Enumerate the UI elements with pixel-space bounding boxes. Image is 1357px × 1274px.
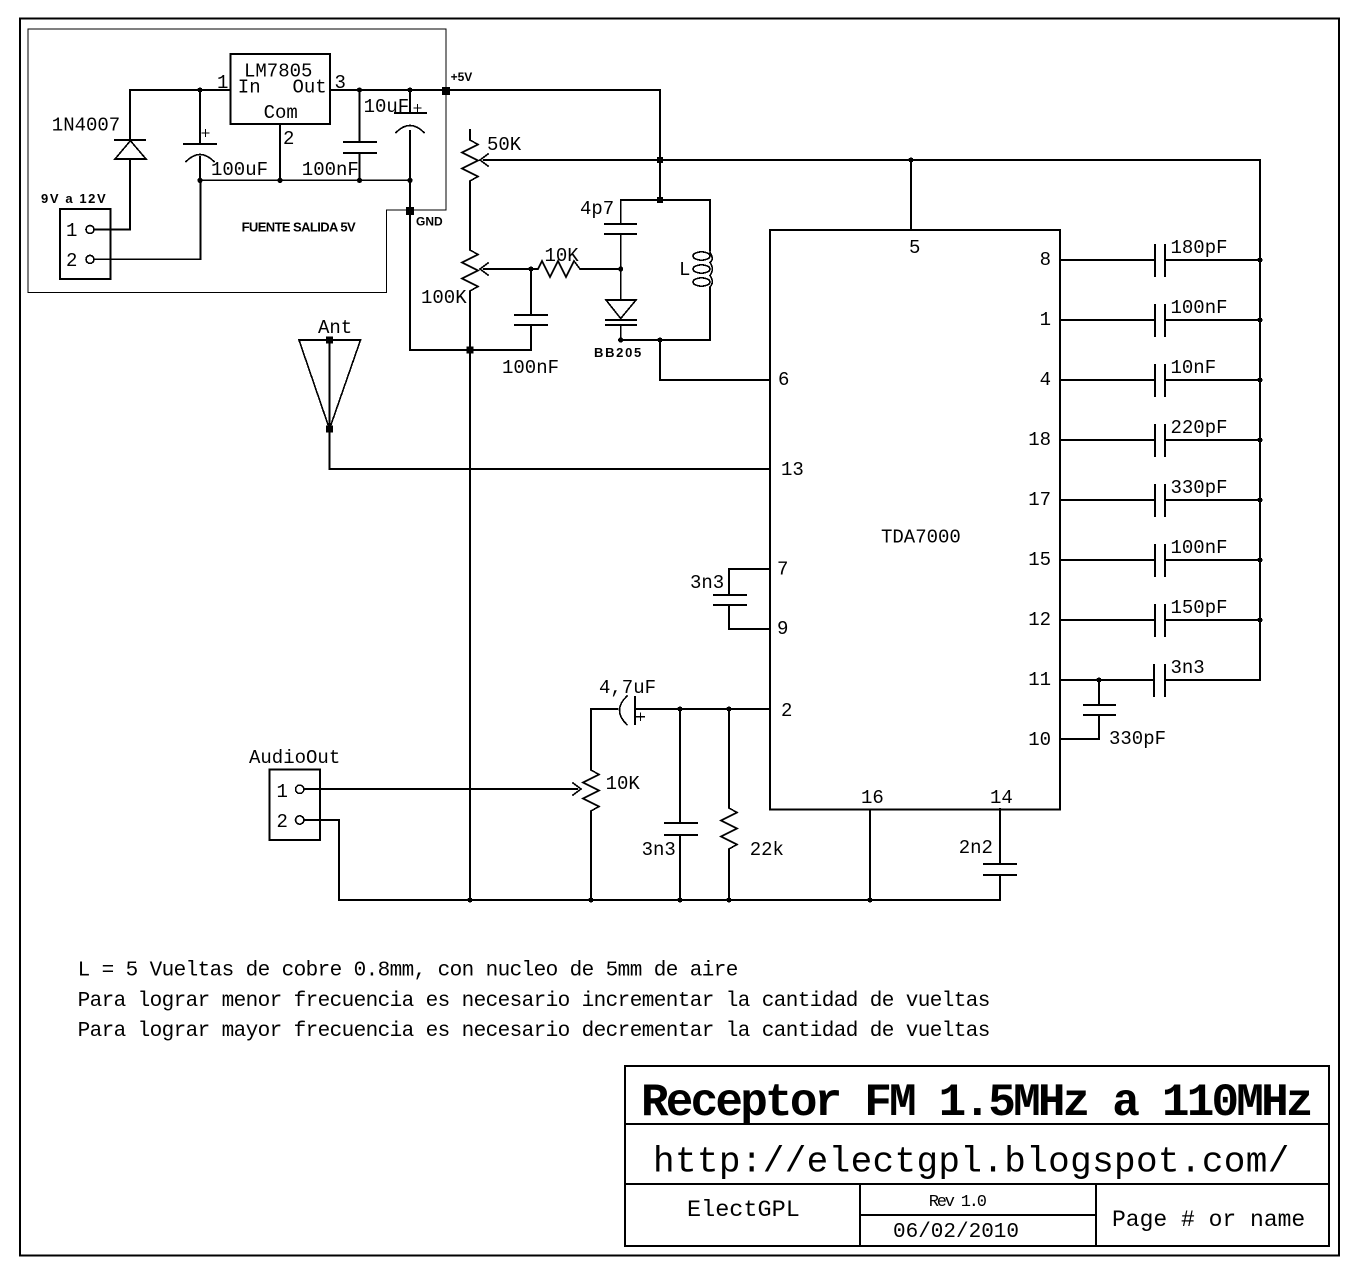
potentiometer R4 10K audio — [583, 709, 599, 900]
junction node bus pin4 — [1257, 377, 1262, 382]
junction node +5V drop at wiper line — [657, 157, 663, 163]
wire pin5 — [910, 160, 912, 230]
svg-text:180pF: 180pF — [1171, 237, 1228, 259]
svg-text:330pF: 330pF — [1171, 477, 1228, 499]
junction node bus pin15 — [1257, 557, 1262, 562]
svg-text:3: 3 — [335, 72, 346, 94]
svg-text:2: 2 — [277, 811, 288, 833]
svg-text:3n3: 3n3 — [1171, 657, 1205, 679]
junction node bus at 100K vertical — [467, 897, 472, 902]
svg-text:12: 12 — [1028, 609, 1051, 631]
svg-text:In: In — [238, 77, 261, 99]
wire diode anode to connector pin1 — [94, 159, 130, 229]
connector J2 AudioOut — [270, 770, 321, 840]
junction node pin5 line — [908, 157, 913, 162]
svg-text:Para lograr mayor frecuencia e: Para lograr mayor frecuencia es necesari… — [78, 1020, 990, 1043]
junction node pin11 at 330pF — [1096, 677, 1101, 682]
svg-text:http://electgpl.blogspot.com/: http://electgpl.blogspot.com/ — [653, 1142, 1290, 1183]
title block frame — [625, 1066, 1329, 1246]
capacitor C9 2n2 at pin14 — [984, 809, 1016, 900]
svg-text:1: 1 — [277, 781, 288, 803]
svg-text:3n3: 3n3 — [642, 839, 676, 861]
svg-text:10nF: 10nF — [1171, 357, 1217, 379]
svg-text:10uF: 10uF — [364, 96, 410, 118]
svg-text:Receptor FM 1.5MHz a 110MHz: Receptor FM 1.5MHz a 110MHz — [641, 1077, 1311, 1129]
svg-text:TDA7000: TDA7000 — [881, 527, 961, 549]
svg-text:ElectGPL: ElectGPL — [687, 1197, 800, 1224]
connector J1 input 9V — [60, 209, 110, 279]
capacitor C10 180pF pin8 — [1060, 245, 1260, 276]
junction node bus pin1 — [1257, 317, 1262, 322]
svg-text:330pF: 330pF — [1109, 728, 1166, 750]
capacitor C1 100uF — [184, 90, 216, 180]
junction node bus pin8 — [1257, 257, 1262, 262]
capacitor C13 220pF pin18 — [1060, 425, 1260, 456]
wire +5V rail from LM7805 pin3 to right corner — [330, 90, 660, 200]
junction node on +5V rail at 10uF — [407, 87, 412, 92]
svg-text:22k: 22k — [750, 839, 784, 861]
wire AudioOut pin1 to 10K wiper — [304, 788, 577, 790]
svg-text:L = 5 Vueltas de cobre 0.8mm,: L = 5 Vueltas de cobre 0.8mm, con nucleo… — [78, 960, 738, 983]
wire IC pin2 line — [635, 708, 770, 710]
wire ground bus bottom — [339, 899, 1000, 901]
junction node varactor bottom — [618, 337, 623, 342]
antenna ANT — [299, 340, 361, 429]
junction node ground rail at 10uF — [407, 178, 412, 183]
junction node pin2 wire at 3n3 — [677, 706, 682, 711]
wire LM7805 pin1 to diode cathode — [130, 90, 231, 140]
junction node bus at 22k — [726, 897, 731, 902]
capacitor C6 3n3 pins 7-9 — [714, 569, 770, 629]
svg-text:Page # or name: Page # or name — [1112, 1207, 1305, 1233]
port GND — [406, 207, 414, 215]
svg-text:FUENTE SALIDA 5V: FUENTE SALIDA 5V — [242, 220, 356, 235]
capacitor C8 3n3 audio — [665, 709, 697, 900]
svg-text:17: 17 — [1028, 489, 1051, 511]
svg-text:100nF: 100nF — [502, 357, 559, 379]
svg-text:06/02/2010: 06/02/2010 — [893, 1221, 1019, 1244]
capacitor C18 330pF pin10-11 — [1060, 680, 1115, 739]
svg-text:10K: 10K — [606, 773, 641, 795]
svg-text:9V a 12V: 9V a 12V — [41, 191, 107, 206]
svg-text:1: 1 — [1040, 309, 1051, 331]
capacitor C3 10uF — [395, 90, 426, 133]
junction node bus pin18 — [1257, 437, 1262, 442]
regulator U1 LM7805 — [231, 54, 331, 124]
resistor R3 10K — [531, 261, 621, 277]
IC U2 TDA7000 — [770, 230, 1060, 810]
capacitor C16 150pF pin12 — [1060, 605, 1260, 636]
wire tank top 4p7 to L — [621, 199, 710, 201]
junction node bus pin17 — [1257, 497, 1262, 502]
varactor D2 BB205 — [620, 269, 622, 300]
svg-text:BB205: BB205 — [594, 345, 643, 360]
wire pin6 branch — [660, 340, 770, 380]
junction node on +5V rail at 100nF — [357, 87, 362, 92]
capacitor C2 100nF — [344, 90, 376, 180]
wire tank bottom BB205 to L — [621, 339, 710, 341]
junction node 10K left — [528, 266, 533, 271]
wire 50K wiper arrow line to right bus — [484, 160, 1260, 680]
svg-text:GND: GND — [416, 215, 443, 229]
svg-text:100K: 100K — [421, 287, 467, 309]
junction node pin2 wire at 22k — [726, 706, 731, 711]
svg-text:220pF: 220pF — [1171, 417, 1228, 439]
svg-text:11: 11 — [1028, 669, 1051, 691]
svg-text:13: 13 — [781, 459, 804, 481]
svg-text:4p7: 4p7 — [580, 198, 614, 220]
junction node bus pin12 — [1257, 617, 1262, 622]
svg-text:9: 9 — [777, 618, 788, 640]
capacitor C11 100nF pin1 — [1060, 305, 1260, 336]
wire GND vertical and bottom bus to 100nF — [410, 131, 531, 350]
junction node tank bottom pin6 — [657, 337, 662, 342]
svg-text:Ant: Ant — [318, 317, 352, 339]
junction node ground rail at 100uF — [197, 178, 202, 183]
svg-text:2: 2 — [66, 250, 77, 272]
svg-text:100nF: 100nF — [302, 159, 359, 181]
diode D1 1N4007 — [115, 140, 146, 159]
port +5V — [442, 87, 450, 95]
power-supply sub-circuit box FUENTE SALIDA 5V — [28, 29, 446, 293]
capacitor C4 100nF lower — [515, 269, 547, 350]
svg-text:100uF: 100uF — [211, 159, 268, 181]
svg-text:1N4007: 1N4007 — [52, 115, 120, 137]
svg-text:1: 1 — [66, 220, 77, 242]
svg-text:2n2: 2n2 — [959, 837, 993, 859]
svg-text:Com: Com — [264, 102, 298, 124]
svg-text:4: 4 — [1040, 369, 1051, 391]
junction node bus at 3n3 — [677, 897, 682, 902]
svg-text:150pF: 150pF — [1171, 597, 1228, 619]
svg-text:50K: 50K — [487, 134, 522, 156]
wire 100K wiper arrow line — [484, 268, 531, 270]
svg-text:18: 18 — [1028, 429, 1051, 451]
svg-text:6: 6 — [778, 369, 789, 391]
svg-text:L: L — [679, 259, 690, 281]
capacitor C5 4p7 — [605, 200, 636, 269]
svg-text:14: 14 — [990, 787, 1013, 809]
capacitor C7 4,7uF — [591, 696, 635, 725]
junction node varactor top — [618, 266, 623, 271]
junction node bus at pin16 — [867, 897, 872, 902]
wire ground rail — [200, 179, 410, 181]
svg-text:8: 8 — [1040, 249, 1051, 271]
junction node on +5V rail at 100uF — [197, 87, 202, 92]
junction node bus at 10K pot — [588, 897, 593, 902]
capacitor C15 100nF pin15 — [1060, 545, 1260, 576]
svg-text:16: 16 — [861, 787, 884, 809]
svg-text:AudioOut: AudioOut — [249, 747, 340, 769]
wire pin16 down — [869, 810, 871, 900]
svg-text:2: 2 — [283, 128, 294, 150]
svg-text:+5V: +5V — [451, 70, 473, 84]
junction node +5V drop at tank top — [657, 197, 663, 203]
wire AudioOut pin2 down to ground bus — [304, 820, 339, 900]
svg-text:100nF: 100nF — [1171, 297, 1228, 319]
svg-text:Out: Out — [293, 77, 327, 99]
svg-text:10: 10 — [1028, 729, 1051, 751]
wire LM7805 pin2 down — [279, 124, 281, 180]
svg-text:10K: 10K — [545, 245, 580, 267]
potentiometer R2 100K — [462, 240, 478, 900]
junction node bottom bus at 100K — [467, 347, 474, 354]
svg-text:2: 2 — [781, 700, 792, 722]
svg-text:5: 5 — [909, 237, 920, 259]
capacitor C14 330pF pin17 — [1060, 485, 1260, 516]
svg-text:4,7uF: 4,7uF — [599, 677, 656, 699]
svg-text:100nF: 100nF — [1171, 537, 1228, 559]
inductor L1 L — [709, 200, 711, 250]
svg-text:Rev 1.0: Rev 1.0 — [929, 1193, 987, 1212]
resistor R5 22k — [721, 709, 737, 900]
svg-text:7: 7 — [777, 559, 788, 581]
capacitor C17 3n3 pin11 — [1060, 665, 1260, 696]
capacitor C12 10nF pin4 — [1060, 365, 1260, 396]
potentiometer R1 50K — [462, 130, 478, 240]
junction node ground rail at 100nF — [357, 178, 362, 183]
wire connector pin2 to ground rail — [94, 180, 201, 259]
svg-text:Para lograr menor frecuencia e: Para lograr menor frecuencia es necesari… — [78, 990, 990, 1013]
junction node ground rail at pin2 — [277, 178, 282, 183]
svg-text:3n3: 3n3 — [690, 572, 724, 594]
svg-text:15: 15 — [1028, 549, 1051, 571]
svg-text:1: 1 — [217, 72, 228, 94]
